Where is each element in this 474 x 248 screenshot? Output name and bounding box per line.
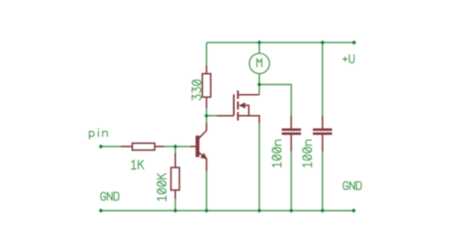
node +U rail end xyxy=(352,40,356,44)
junction gnd / emitter xyxy=(204,208,208,212)
net label GND left xyxy=(101,192,119,200)
transistor N-MOSFET xyxy=(217,91,260,124)
value label 100n left xyxy=(272,140,281,167)
wire base node to 100K xyxy=(174,147,176,154)
junction gnd / source xyxy=(257,208,261,212)
wire base node to transistor base xyxy=(175,146,190,148)
wire bottom GND rail xyxy=(101,210,354,212)
wire top +U rail xyxy=(207,42,355,44)
junction collector node xyxy=(204,114,208,118)
wire 330 resistor to collector node xyxy=(206,109,208,116)
junction gnd / right capacitor xyxy=(320,208,324,212)
wire drain node to left capacitor xyxy=(259,85,291,116)
wire collector node to mosfet gate xyxy=(207,115,217,117)
junction top rail / motor xyxy=(257,40,261,44)
wire motor bottom to drain node xyxy=(258,74,260,95)
value label 100K xyxy=(157,174,166,201)
junction base node xyxy=(173,144,177,148)
net label pin xyxy=(89,129,107,139)
motor label M xyxy=(257,59,262,67)
wire 1K to base node xyxy=(164,146,175,148)
wire mosfet source to ground rail xyxy=(258,124,260,211)
junction gnd / left capacitor xyxy=(289,208,293,212)
capacitor 100n right xyxy=(313,116,332,152)
transistor NPN xyxy=(190,123,207,172)
net label GND right xyxy=(343,182,361,190)
resistor 100K xyxy=(171,153,179,199)
node gnd rail right end xyxy=(352,208,356,212)
resistor 1K xyxy=(121,143,165,150)
node gnd rail left end xyxy=(99,208,103,212)
wire right capacitor to ground rail xyxy=(322,152,324,211)
node pin end xyxy=(99,144,103,148)
wire left capacitor to ground rail xyxy=(290,152,292,211)
wire motor top lead xyxy=(258,43,260,54)
resistor 330 xyxy=(202,66,210,109)
wire top rail to right capacitor xyxy=(322,43,324,116)
wire 100K to ground rail xyxy=(174,199,176,211)
junction top rail / right capacitor xyxy=(320,40,324,44)
junction gnd / 100K xyxy=(173,208,177,212)
value label 330 xyxy=(192,80,201,100)
wire emitter to ground rail xyxy=(206,172,208,211)
net label +U xyxy=(343,55,354,63)
capacitor 100n left xyxy=(282,116,301,152)
wire collector node down xyxy=(206,116,208,123)
value label 100n right xyxy=(303,140,312,167)
wire pin input xyxy=(101,146,121,148)
junction drain node xyxy=(257,82,261,86)
wire rail to 330 resistor xyxy=(206,43,208,66)
value label 1K xyxy=(131,160,143,169)
motor M xyxy=(249,53,269,73)
